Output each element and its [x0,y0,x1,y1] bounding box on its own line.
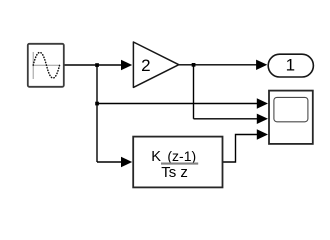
svg-text:2: 2 [141,56,150,75]
svg-text:1: 1 [286,56,295,75]
svg-text:Ts z: Ts z [161,164,188,181]
svg-text:K: K [151,149,161,165]
svg-text:(z-1): (z-1) [167,148,196,164]
